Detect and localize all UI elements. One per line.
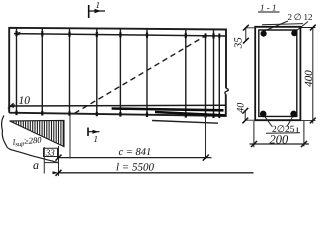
thick bottom bar 1 (curtailed bar) bbox=[112, 108, 224, 110]
svg-text:33: 33 bbox=[45, 148, 56, 158]
tick c right bbox=[203, 155, 209, 161]
dimension line l bbox=[58, 172, 253, 174]
svg-text:10: 10 bbox=[18, 95, 30, 107]
label 2 dia 25 with leaders bbox=[265, 117, 272, 127]
stirrup S4 bbox=[96, 28, 98, 115]
leader to right top bar bbox=[296, 22, 308, 32]
stirrup S7 bbox=[185, 29, 187, 117]
support wavy outline bbox=[2, 115, 59, 162]
svg-text:1: 1 bbox=[93, 134, 98, 144]
svg-text:35: 35 bbox=[233, 37, 245, 50]
extension line x=70 bbox=[69, 113, 71, 158]
bottom rebar line bbox=[8, 104, 226, 107]
dim 400: ext lines, dim line, ticks, rotated text bbox=[300, 27, 315, 29]
svg-text:200: 200 bbox=[269, 132, 289, 146]
stirrup S6 bbox=[146, 29, 148, 117]
beam outline (elevation) bbox=[9, 28, 226, 116]
svg-text:c = 841: c = 841 bbox=[118, 147, 151, 158]
boxed dimension 33 bbox=[43, 148, 57, 156]
dim 40: ticks, line, rotated text bbox=[244, 111, 246, 121]
top bar dots 2d12 bbox=[261, 31, 267, 37]
svg-text:a: a bbox=[33, 158, 39, 172]
stirrup inner rect bbox=[259, 30, 297, 116]
dim 200: ext lines, dim line, ticks, text bbox=[253, 121, 255, 147]
section mark bottom: cut line, arrow, label 1 bbox=[88, 127, 100, 136]
dashed theoretical cutoff line bbox=[74, 36, 205, 114]
tick c left bbox=[55, 155, 61, 161]
extension line x=44.3 bbox=[43, 147, 45, 174]
section mark top: cut line, arrow, label 1 bbox=[89, 5, 105, 18]
svg-text:l = 5500: l = 5500 bbox=[116, 162, 154, 174]
extension line x=58.5 (support axis) bbox=[57, 146, 59, 176]
stirrup S1 bbox=[15, 28, 17, 115]
bottom bar dots 2d25 bbox=[260, 111, 267, 118]
partial stirrup x=219.3 bbox=[218, 36, 220, 118]
stirrup S5 bbox=[119, 29, 121, 116]
stirrup S2 bbox=[41, 28, 43, 115]
stirrup S8 bbox=[212, 29, 214, 117]
section outline bbox=[255, 27, 300, 120]
svg-text:2 ∅ 12: 2 ∅ 12 bbox=[288, 12, 313, 22]
partial stirrup / cutoff vertical x=205.5 bbox=[204, 36, 206, 118]
svg-text:1 - 1: 1 - 1 bbox=[260, 2, 277, 12]
top rebar line bbox=[14, 34, 227, 36]
extension line under right part of beam bbox=[152, 120, 218, 123]
thick bottom bar 2 (curtailed bar) bbox=[155, 112, 225, 115]
dimension a line bbox=[44, 162, 58, 164]
bottom rebar left arrow bbox=[7, 104, 15, 108]
svg-text:400: 400 bbox=[303, 70, 315, 87]
svg-text:40: 40 bbox=[235, 103, 246, 113]
top rebar left arrow bbox=[14, 32, 21, 36]
leader to left top bar bbox=[263, 21, 288, 32]
hatch lines bbox=[11, 121, 63, 147]
break squiggle on right edge bbox=[225, 88, 228, 94]
rough top line above section bbox=[262, 24, 303, 25]
extension line x=205.8 (cutoff point) bbox=[204, 116, 206, 160]
tick l left bbox=[55, 170, 61, 176]
dimension line c bbox=[57, 157, 212, 159]
bearing pressure hatched triangle bbox=[9, 120, 64, 146]
dim 35: ticks, line, rotated text bbox=[245, 27, 247, 42]
stirrup S3 bbox=[68, 28, 70, 115]
svg-text:1: 1 bbox=[96, 0, 101, 10]
